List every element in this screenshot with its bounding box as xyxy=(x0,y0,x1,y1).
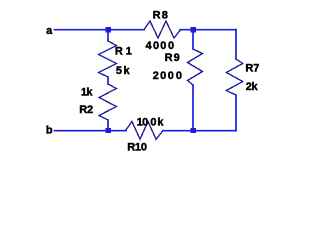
wire left column bottom (R2 to junction b) xyxy=(107,120,109,131)
wire left column top (junction a to R1) xyxy=(107,30,109,41)
svg-text:R10: R10 xyxy=(127,142,147,154)
junction node at bottom rail / R9 xyxy=(191,128,196,133)
svg-text:R9: R9 xyxy=(165,52,180,64)
svg-text:1k: 1k xyxy=(81,87,94,99)
resistor R8 zigzag (4000, horizontal top) xyxy=(144,21,181,38)
svg-text:2000: 2000 xyxy=(153,70,182,82)
resistor R9 zigzag (2000, vertical middle) xyxy=(188,49,203,85)
wire top rail right (R8 to top-right corner) xyxy=(180,29,236,31)
wire connector R1 to R2 xyxy=(107,77,109,84)
resistor R2 zigzag (1k, vertical left) xyxy=(99,84,117,120)
junction node at b-rail / R2 xyxy=(106,128,111,133)
resistor R7 zigzag (2k, vertical right) xyxy=(226,59,242,95)
junction node at a-rail / R1 xyxy=(106,27,111,32)
wire bottom rail left (b to R10) xyxy=(55,130,127,132)
svg-text:b: b xyxy=(46,125,53,137)
svg-text:a: a xyxy=(46,25,53,37)
svg-text:4000: 4000 xyxy=(145,40,174,52)
svg-text:R1: R1 xyxy=(115,45,132,57)
wire right column top (corner down to R7) xyxy=(235,30,237,59)
wire middle column bottom (R9 to bottom junction) xyxy=(192,85,194,131)
resistor R1 zigzag (5k, vertical left) xyxy=(99,41,117,77)
svg-text:100k: 100k xyxy=(137,116,165,128)
svg-text:5k: 5k xyxy=(116,65,131,77)
svg-text:2k: 2k xyxy=(246,81,259,93)
wire top rail left (a to R8) xyxy=(55,29,145,31)
wire bottom rail right (R10 to bottom-right corner) xyxy=(163,130,236,132)
wire middle column top (junction to R9) xyxy=(192,30,194,49)
wire right column bottom (R7 to bottom rail) xyxy=(235,95,237,131)
svg-text:R2: R2 xyxy=(79,104,93,116)
svg-text:R8: R8 xyxy=(153,10,168,22)
resistor R10 zigzag (100k, horizontal bottom) xyxy=(125,122,163,140)
svg-text:R7: R7 xyxy=(245,62,259,74)
junction node at top rail / R9 xyxy=(191,27,196,32)
